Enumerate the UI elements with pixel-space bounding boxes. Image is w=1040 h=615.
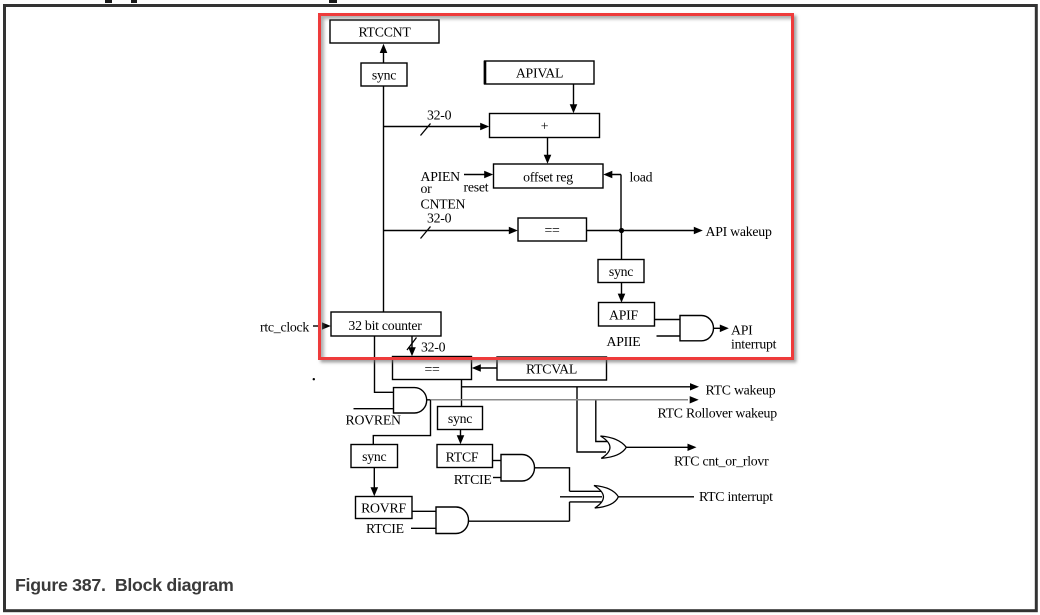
wire RTC rollover wakeup (gray) xyxy=(431,399,688,401)
wire OR2 lower input from AND3 xyxy=(469,502,602,521)
box eq2 xyxy=(393,357,472,380)
wire junction to sync2 xyxy=(621,231,623,260)
wire OR1 output xyxy=(626,446,688,448)
wire APIIE to AND1 xyxy=(657,335,681,337)
arrowhead RTC wakeup xyxy=(690,383,699,390)
wire AND1 output API interrupt xyxy=(714,327,721,329)
wire RTCIE2 to AND3 xyxy=(411,527,436,529)
bus slash 3 xyxy=(407,338,417,351)
wire AND2 output to OR2 xyxy=(535,468,602,492)
arrowhead RTCVAL into eq2 xyxy=(472,364,481,371)
svg-text:APIVAL: APIVAL xyxy=(516,66,563,81)
AND0 gate ROVREN xyxy=(394,388,427,413)
svg-text:32-0: 32-0 xyxy=(427,108,452,123)
svg-text:ROVRF: ROVRF xyxy=(361,501,406,516)
wire RTC wakeup xyxy=(462,386,691,388)
box RTCCNT xyxy=(330,20,439,43)
svg-text:sync: sync xyxy=(372,68,396,83)
stray dot xyxy=(313,378,315,380)
svg-text:32 bit counter: 32 bit counter xyxy=(348,318,422,333)
svg-text:sync: sync xyxy=(362,449,386,464)
wire APIVAL to adder xyxy=(573,84,575,109)
arrowhead into RTCCNT xyxy=(380,44,388,53)
box sync1 xyxy=(361,63,407,86)
svg-text:RTCCNT: RTCCNT xyxy=(358,25,411,40)
arrowhead APIVAL down xyxy=(570,104,578,113)
box APIVAL xyxy=(485,61,595,84)
svg-text:CNTEN: CNTEN xyxy=(421,197,466,212)
arrowhead into APIF xyxy=(618,294,626,303)
wire counter 32-0 to eq2 xyxy=(411,336,413,352)
wire to OR1 lower input xyxy=(577,387,606,452)
svg-text:32-0: 32-0 xyxy=(427,211,452,226)
svg-text:API wakeup: API wakeup xyxy=(706,224,772,239)
arrowhead OR1 output xyxy=(688,444,697,451)
svg-text:API: API xyxy=(731,323,753,338)
svg-text:reset: reset xyxy=(464,180,489,195)
arrowhead rtc_clock xyxy=(322,322,331,329)
wire eq1 to API wakeup xyxy=(587,230,695,232)
cropped text fragments at top edge xyxy=(105,0,112,3)
svg-text:RTCIE: RTCIE xyxy=(454,472,492,487)
wire eq2 bottom to sync3 xyxy=(461,380,463,407)
wire to OR1 upper input xyxy=(596,400,607,442)
arrowhead API wakeup xyxy=(694,227,703,234)
arrowhead reset into offset reg xyxy=(484,171,493,178)
wire sync3 to RTCF xyxy=(460,430,462,441)
svg-text:RTC Rollover wakeup: RTC Rollover wakeup xyxy=(658,406,778,421)
wire adder to offset reg xyxy=(547,138,549,160)
box 32 bit counter xyxy=(331,312,441,336)
wire 32-0 bus to comparator eq1 xyxy=(384,230,511,232)
wire OR2 middle input xyxy=(560,496,602,498)
box RTCVAL xyxy=(497,357,607,380)
arrowhead load into offset reg xyxy=(603,171,612,178)
svg-text:Figure 387. Block diagram: Figure 387. Block diagram xyxy=(15,575,234,595)
APIVAL thick left edge xyxy=(484,61,487,84)
box offset reg xyxy=(494,164,604,188)
wire AND0 output down to sync4 xyxy=(373,400,430,445)
box sync3 xyxy=(438,407,483,430)
wire RTCVAL to eq2 xyxy=(480,367,497,369)
arrowhead RTC rollover wakeup xyxy=(690,396,699,403)
wire sync to RTCCNT xyxy=(383,51,385,63)
box sync2 xyxy=(598,260,644,283)
junction dot load line xyxy=(619,228,624,233)
wire trunk from sync down to counter xyxy=(383,86,385,312)
svg-text:RTC wakeup: RTC wakeup xyxy=(706,383,776,398)
arrowhead API interrupt xyxy=(720,325,729,333)
arrowhead sync4 to ROVRF xyxy=(371,487,379,496)
box eq1 xyxy=(518,218,587,241)
wire RTCIE to AND2 xyxy=(493,477,501,479)
svg-text:APIF: APIF xyxy=(609,308,638,323)
OR2 gate RTC interrupt xyxy=(594,486,618,509)
wire ROVREN stub xyxy=(354,408,394,410)
box sync4 xyxy=(351,445,398,468)
svg-text:rtc_clock: rtc_clock xyxy=(260,320,309,335)
svg-text:interrupt: interrupt xyxy=(731,337,777,352)
svg-text:RTCIE: RTCIE xyxy=(366,521,404,536)
wire 32-0 bus to adder xyxy=(384,126,482,128)
svg-text:load: load xyxy=(630,170,653,185)
wire APIF to AND1 xyxy=(655,319,681,321)
svg-text:or: or xyxy=(421,181,433,196)
wire sync2 to APIF xyxy=(621,283,623,299)
arrowhead into eq1 xyxy=(509,227,518,234)
AND3 gate ROVRF xyxy=(436,507,469,534)
arrowhead into adder xyxy=(480,123,489,130)
AND2 gate RTCF xyxy=(501,455,535,482)
wire APIEN reset to offset reg xyxy=(464,174,485,176)
OR1 gate cnt_or_rlovr xyxy=(601,436,627,458)
svg-text:+: + xyxy=(541,119,549,134)
wire load into offset reg xyxy=(611,175,621,231)
svg-text:offset reg: offset reg xyxy=(523,170,573,185)
svg-text:APIIE: APIIE xyxy=(606,334,640,349)
svg-text:==: == xyxy=(544,223,560,238)
wire OR2 output RTC interrupt xyxy=(618,496,694,498)
svg-text:RTCF: RTCF xyxy=(446,450,479,465)
box RTCF xyxy=(437,445,493,468)
svg-text:RTC interrupt: RTC interrupt xyxy=(699,489,773,504)
arrowhead into eq2 xyxy=(408,347,416,356)
svg-text:sync: sync xyxy=(609,264,633,279)
svg-text:ROVREN: ROVREN xyxy=(346,413,402,428)
wire counter to AND0 xyxy=(375,336,394,392)
wire RTCF to AND2 xyxy=(493,460,502,462)
wire rtc_clock dash xyxy=(313,325,320,327)
arrowhead into sync3? none ; arrowhead sync3 to RTCF xyxy=(457,435,465,444)
arrowhead adder down xyxy=(544,155,552,164)
box adder xyxy=(490,114,600,138)
svg-text:==: == xyxy=(424,362,440,377)
bus slash 2 xyxy=(421,227,431,239)
box ROVRF xyxy=(356,497,413,519)
red highlight rectangle xyxy=(318,13,794,361)
svg-text:RTC cnt_or_rlovr: RTC cnt_or_rlovr xyxy=(674,454,769,469)
box APIF xyxy=(599,303,655,327)
wire ROVRF to AND3 xyxy=(412,510,436,512)
svg-text:RTCVAL: RTCVAL xyxy=(526,362,577,377)
AND1 gate API interrupt xyxy=(680,316,713,341)
svg-text:32-0: 32-0 xyxy=(421,340,446,355)
wire sync4 to ROVRF xyxy=(373,468,375,492)
svg-text:sync: sync xyxy=(448,411,472,426)
bus slash 1 xyxy=(421,124,431,136)
